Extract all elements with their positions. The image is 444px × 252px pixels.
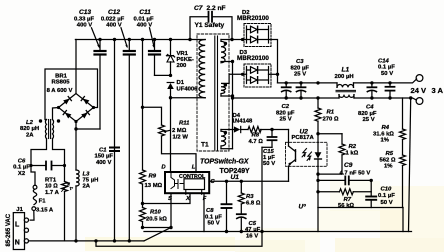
wire S1 top to D2 bbox=[221, 39, 247, 41]
wire C pin line bbox=[209, 180, 288, 182]
svg-text:T1: T1 bbox=[201, 142, 209, 149]
svg-text:R5: R5 bbox=[386, 151, 394, 157]
svg-text:1%: 1% bbox=[384, 163, 393, 169]
wire bridge negative down left DC return bbox=[75, 122, 77, 171]
svg-text:2 MΩ: 2 MΩ bbox=[172, 128, 187, 134]
svg-text:L2: L2 bbox=[26, 120, 34, 126]
capacitor C7 Y1 safety bbox=[190, 12, 232, 40]
svg-text:0.1 µF: 0.1 µF bbox=[13, 165, 30, 171]
svg-text:R9: R9 bbox=[149, 173, 157, 179]
wire X pin link bbox=[143, 195, 191, 204]
svg-text:t°: t° bbox=[70, 186, 74, 191]
wire S1 bottom to ground vertical bbox=[221, 61, 233, 63]
wire S pin down bbox=[170, 195, 172, 228]
resistor R1 270 preload bbox=[315, 98, 321, 135]
svg-text:25 V: 25 V bbox=[294, 72, 306, 78]
resistor R8 4.7 bbox=[248, 127, 289, 133]
svg-text:50 V: 50 V bbox=[381, 200, 393, 206]
capacitor C10 0.1uF bbox=[366, 180, 376, 207]
wire top DC bus rail bbox=[75, 39, 205, 41]
wire R9 branch from top rail bbox=[142, 40, 144, 108]
svg-text:F1: F1 bbox=[39, 199, 47, 205]
svg-text:50 V: 50 V bbox=[208, 221, 220, 227]
svg-text:47 µF: 47 µF bbox=[245, 227, 261, 233]
svg-text:3 A: 3 A bbox=[432, 86, 444, 95]
svg-text:C5: C5 bbox=[249, 221, 257, 227]
resistor R3 6.8 bbox=[238, 181, 244, 213]
wire C1 branch vertical bbox=[114, 40, 116, 241]
resistor R11 2M line sense bbox=[141, 106, 196, 172]
svg-text:0.1 µF: 0.1 µF bbox=[378, 193, 395, 199]
svg-text:8 A 600 V: 8 A 600 V bbox=[47, 88, 73, 94]
wire S2 top to D3 bbox=[229, 73, 246, 75]
node junction dots on top rail bbox=[98, 38, 191, 41]
feedback box (empty) bbox=[318, 208, 403, 232]
svg-text:0.1 µF: 0.1 µF bbox=[205, 214, 222, 220]
diode D4 1N4148 bbox=[221, 126, 248, 132]
capacitor C11 bbox=[149, 40, 171, 76]
svg-text:200: 200 bbox=[177, 63, 188, 69]
svg-text:R7: R7 bbox=[344, 197, 352, 203]
inductor L1 200uH output choke bbox=[336, 83, 356, 98]
svg-text:4.7 Ω: 4.7 Ω bbox=[249, 139, 264, 145]
svg-text:C3: C3 bbox=[296, 59, 304, 65]
wire right rail from output minus bbox=[409, 98, 411, 232]
diode D1 UF4006 bbox=[167, 83, 174, 98]
svg-text:50 V: 50 V bbox=[381, 71, 393, 77]
svg-text:24 V: 24 V bbox=[411, 86, 428, 95]
capacitor C2 820uF bbox=[282, 83, 291, 98]
svg-text:C11: C11 bbox=[139, 9, 151, 16]
svg-text:1%: 1% bbox=[381, 137, 390, 143]
svg-text:PC817A: PC817A bbox=[292, 135, 315, 141]
svg-text:C4: C4 bbox=[366, 105, 374, 111]
wire AC loop from L2 left winding over bridge to right AC corner bbox=[45, 69, 98, 120]
svg-text:820 µF: 820 µF bbox=[276, 110, 295, 116]
svg-text:L1: L1 bbox=[342, 66, 350, 73]
svg-text:UF4006: UF4006 bbox=[177, 86, 199, 92]
svg-text:C13: C13 bbox=[79, 9, 91, 16]
wire output plus rail bbox=[278, 82, 338, 84]
terminal output - bbox=[416, 98, 423, 105]
svg-text:RS805: RS805 bbox=[51, 80, 70, 86]
resistor R7 56k bbox=[318, 189, 371, 195]
svg-text:D: D bbox=[161, 164, 166, 170]
node drain junction / wire to primary bottom bbox=[169, 74, 172, 77]
optocoupler U2 PC817A bbox=[286, 130, 328, 182]
svg-text:820 µH: 820 µH bbox=[20, 126, 39, 132]
label C13 with leader arrow bbox=[74, 9, 94, 28]
wire L2 right winding to bridge left AC corner bbox=[53, 108, 59, 120]
svg-text:S: S bbox=[168, 196, 172, 202]
TOPSwitch TOP249Y U1 block bbox=[165, 172, 209, 194]
svg-text:25 V: 25 V bbox=[363, 117, 375, 123]
transformer core bbox=[214, 36, 216, 150]
svg-text:X2: X2 bbox=[18, 171, 26, 177]
wire L2 left bottom to C6/F1 branch bbox=[31, 139, 47, 186]
svg-text:820 µF: 820 µF bbox=[291, 65, 310, 71]
svg-text:C2: C2 bbox=[282, 104, 290, 110]
svg-text:50 V: 50 V bbox=[263, 161, 275, 167]
svg-text:150 µF: 150 µF bbox=[95, 154, 114, 160]
svg-text:C: C bbox=[210, 179, 215, 185]
svg-text:820 µF: 820 µF bbox=[358, 111, 377, 117]
watermark bbox=[299, 204, 307, 211]
wire bottom N / DC return rail bbox=[29, 240, 145, 242]
svg-text:R3: R3 bbox=[246, 194, 254, 200]
inductor L3 75uH bbox=[76, 170, 79, 186]
svg-text:2A: 2A bbox=[83, 183, 91, 189]
svg-text:CONTROL: CONTROL bbox=[179, 174, 206, 180]
svg-text:25 V: 25 V bbox=[280, 117, 292, 123]
wire LED anode from R1 node into box bbox=[317, 134, 319, 143]
resistor R10 20.5k bbox=[140, 202, 146, 229]
svg-text:400 V: 400 V bbox=[106, 22, 121, 28]
svg-text:R2: R2 bbox=[349, 144, 357, 150]
transformer primary winding bbox=[199, 40, 205, 98]
svg-text:MBR20100: MBR20100 bbox=[237, 15, 269, 22]
capacitor C3 820uF bbox=[297, 83, 306, 98]
wire output ground rail bbox=[233, 97, 340, 99]
wire secondary ground vertical bbox=[232, 62, 234, 149]
node phase dots bbox=[224, 42, 227, 135]
capacitor C15 1uF bbox=[262, 128, 277, 232]
svg-text:L: L bbox=[15, 222, 20, 229]
svg-text:C9: C9 bbox=[344, 162, 353, 169]
svg-text:0.1 µF: 0.1 µF bbox=[378, 65, 395, 71]
wire bias winding bottom bbox=[221, 148, 233, 150]
capacitor C12 bbox=[124, 40, 135, 241]
svg-text:20.5 kΩ: 20.5 kΩ bbox=[146, 216, 167, 222]
wire diagonal source return to bottom rail bbox=[144, 228, 171, 241]
svg-text:2.2 nF: 2.2 nF bbox=[207, 5, 226, 12]
svg-text:2A: 2A bbox=[26, 132, 34, 138]
svg-text:J1: J1 bbox=[16, 207, 23, 213]
wire local source rail bbox=[144, 231, 412, 233]
wire S2 bottom to ground vertical bbox=[221, 95, 233, 97]
svg-text:3.15 A: 3.15 A bbox=[36, 207, 54, 213]
rectifier D2 MBR20100 dual bbox=[241, 24, 271, 47]
svg-text:TOPSwitch-GX: TOPSwitch-GX bbox=[200, 159, 249, 166]
wire drain vertical to D pin bbox=[170, 98, 172, 172]
svg-text:C1: C1 bbox=[99, 147, 107, 153]
resistor R9 13M bbox=[140, 107, 146, 207]
svg-text:R10: R10 bbox=[150, 209, 162, 215]
capacitor C5 47uF bbox=[237, 214, 246, 231]
svg-text:6.8 Ω: 6.8 Ω bbox=[246, 200, 261, 206]
svg-text:200 µH: 200 µH bbox=[335, 74, 354, 80]
wire L2 right bottom to RT1 branch bbox=[53, 139, 65, 182]
svg-text:270 Ω: 270 Ω bbox=[323, 116, 339, 122]
capacitor C6 X2 bbox=[29, 162, 66, 170]
label C12 with leader arrow bbox=[101, 9, 125, 28]
transformer bias winding bbox=[221, 130, 226, 149]
capacitor C1 150uF 400V bbox=[110, 148, 119, 152]
svg-text:C10: C10 bbox=[381, 186, 393, 192]
wire earth stub and bottom link line bbox=[96, 232, 262, 247]
node bridge negative corner bbox=[74, 127, 77, 130]
svg-text:R11: R11 bbox=[179, 121, 189, 127]
svg-text:400 V: 400 V bbox=[77, 22, 92, 28]
svg-text:R4: R4 bbox=[382, 125, 390, 131]
svg-text:56 kΩ: 56 kΩ bbox=[338, 203, 354, 209]
wire F pin down bbox=[203, 195, 205, 232]
svg-text:1 µF: 1 µF bbox=[263, 155, 275, 161]
svg-text:MBR20100: MBR20100 bbox=[237, 55, 269, 62]
svg-text:C14: C14 bbox=[378, 58, 390, 64]
svg-text:C8: C8 bbox=[206, 208, 214, 214]
capacitor C13 bbox=[95, 40, 106, 130]
svg-text:10 Ω: 10 Ω bbox=[45, 184, 58, 190]
transformer secondary winding S1 bbox=[221, 40, 226, 63]
wire D2/D3 cathodes to plus rail bbox=[269, 40, 278, 83]
capacitor C8 0.1uF bbox=[222, 181, 232, 231]
svg-text:R1: R1 bbox=[327, 110, 335, 116]
svg-text:1N4148: 1N4148 bbox=[232, 119, 253, 125]
svg-text:16 V: 16 V bbox=[246, 233, 258, 239]
svg-text:C12: C12 bbox=[108, 9, 120, 16]
svg-text:1 kΩ: 1 kΩ bbox=[346, 150, 359, 156]
svg-text:C6: C6 bbox=[18, 158, 26, 164]
resistor R4 31.6k bbox=[400, 98, 406, 155]
fuse F1 3.15A bbox=[30, 185, 37, 220]
svg-text:RT1: RT1 bbox=[45, 177, 57, 183]
zener VR1 P6KE-200 bbox=[167, 40, 175, 76]
bridge rectifier BR1 RS805 bbox=[57, 40, 95, 124]
svg-text:R8: R8 bbox=[252, 133, 260, 139]
svg-text:F: F bbox=[203, 196, 207, 202]
resistor R5 562 bbox=[400, 155, 406, 208]
svg-text:400 V: 400 V bbox=[96, 160, 111, 166]
svg-text:N: N bbox=[15, 240, 20, 247]
svg-text:U1: U1 bbox=[231, 174, 240, 181]
svg-text:C15: C15 bbox=[263, 149, 275, 155]
svg-text:D1: D1 bbox=[177, 80, 185, 86]
capacitor C9 4.7nF bbox=[318, 176, 373, 184]
label C11 with leader arrow bbox=[133, 9, 153, 28]
svg-text:C7: C7 bbox=[194, 5, 203, 12]
choke L2 common mode bbox=[39, 119, 60, 138]
svg-text:Y1 Safety: Y1 Safety bbox=[195, 22, 225, 29]
capacitor C14 0.1uF bbox=[386, 83, 395, 98]
wire R10 bottom to S junction bbox=[143, 227, 172, 229]
svg-text:1.7 A: 1.7 A bbox=[45, 190, 60, 196]
transformer secondary winding S2 bbox=[221, 74, 229, 96]
wire LED cathode chain down bbox=[317, 166, 319, 207]
svg-text:13 MΩ: 13 MΩ bbox=[145, 183, 163, 189]
transformer T1 dashed box bbox=[197, 34, 229, 151]
svg-text:L: L bbox=[192, 164, 196, 170]
svg-text:Uº: Uº bbox=[299, 204, 307, 211]
svg-text:1/2 W: 1/2 W bbox=[173, 134, 189, 140]
svg-text:85-265 VAC: 85-265 VAC bbox=[6, 213, 12, 246]
terminal output + bbox=[416, 75, 423, 82]
connector J1 bbox=[13, 213, 28, 250]
wire C13 return to bridge negative bbox=[76, 128, 100, 130]
capacitor C4 820uF bbox=[367, 83, 376, 98]
rectifier D3 MBR20100 dual bbox=[241, 64, 271, 87]
resistor R2 1k bbox=[318, 134, 345, 174]
thermistor RT1 bbox=[62, 182, 70, 241]
svg-text:4.7 nF 50 V: 4.7 nF 50 V bbox=[340, 171, 371, 177]
